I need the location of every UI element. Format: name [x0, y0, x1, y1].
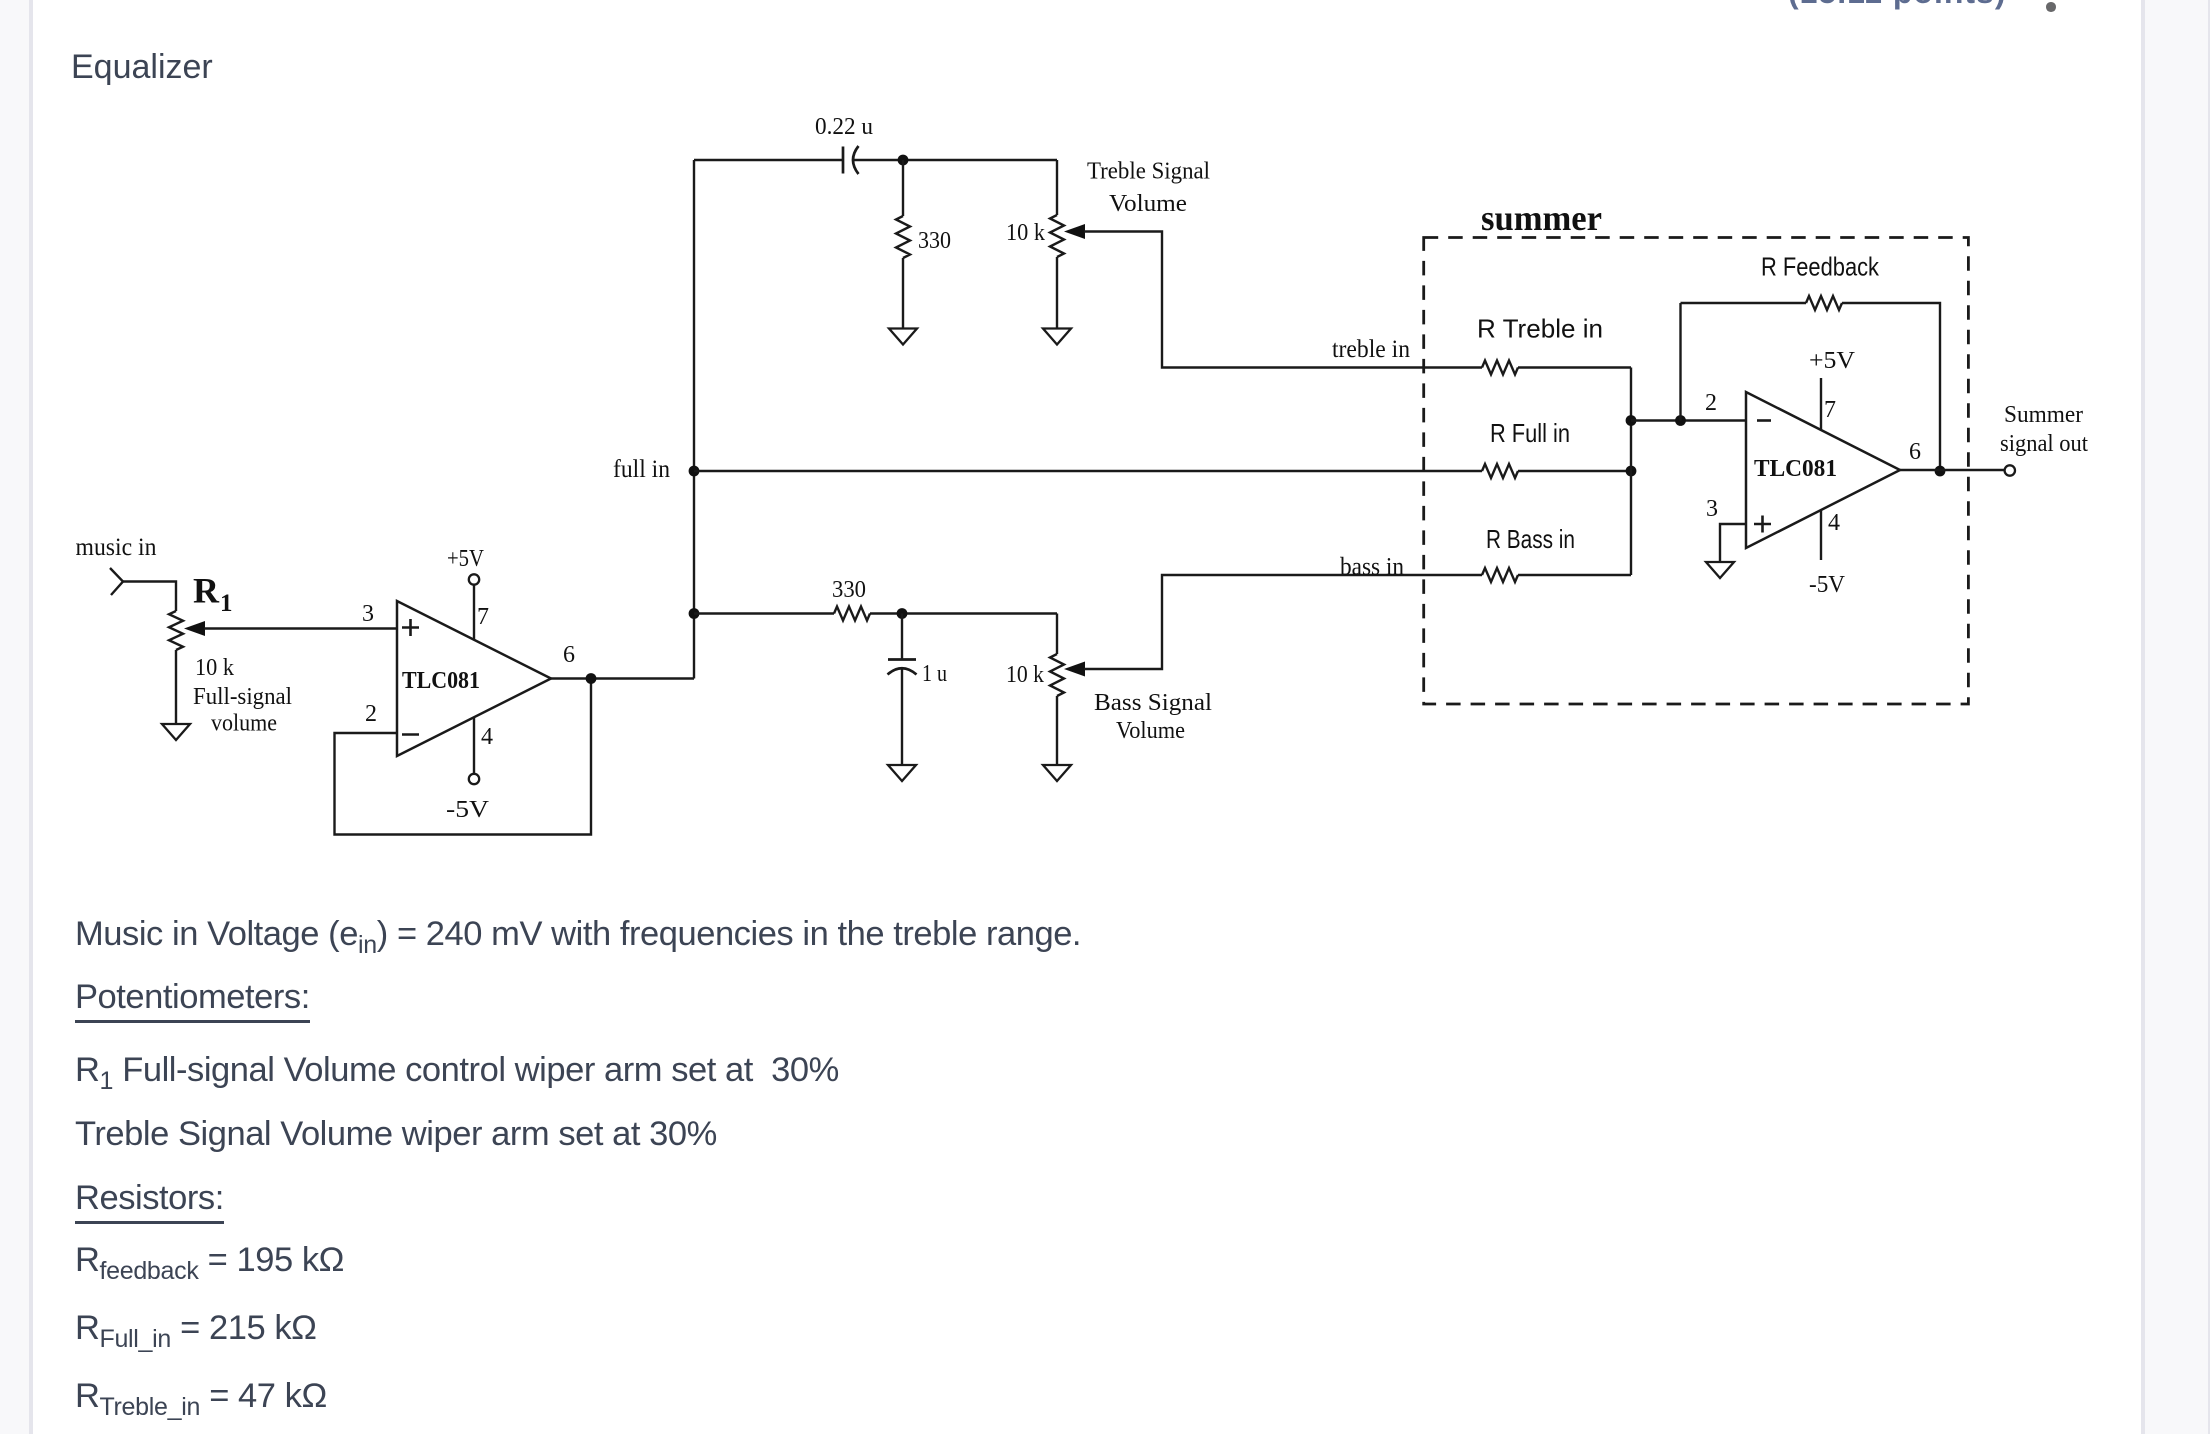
- svg-text:summer: summer: [1481, 198, 1602, 238]
- svg-text:330: 330: [832, 577, 866, 603]
- svg-text:7: 7: [1824, 397, 1836, 423]
- svg-text:bass in: bass in: [1340, 554, 1404, 581]
- svg-text:0.22 u: 0.22 u: [815, 114, 873, 140]
- svg-text:volume: volume: [211, 711, 277, 737]
- svg-text:Full-signal: Full-signal: [193, 684, 292, 710]
- svg-text:10 k: 10 k: [1006, 220, 1045, 246]
- svg-text:6: 6: [563, 642, 575, 668]
- svg-text:Bass Signal: Bass Signal: [1094, 690, 1212, 716]
- svg-text:6: 6: [1909, 439, 1921, 465]
- svg-text:full in: full in: [613, 456, 670, 483]
- svg-text:Volume: Volume: [1109, 191, 1187, 217]
- svg-text:-5V: -5V: [446, 797, 490, 823]
- svg-text:Treble Signal: Treble Signal: [1087, 159, 1210, 185]
- svg-text:signal out: signal out: [2000, 431, 2088, 457]
- svg-text:10 k: 10 k: [195, 655, 234, 681]
- svg-text:+5V: +5V: [1809, 348, 1856, 374]
- svg-text:Volume: Volume: [1116, 718, 1185, 744]
- svg-text:R Full in: R Full in: [1490, 418, 1570, 448]
- svg-text:2: 2: [365, 701, 377, 727]
- svg-text:3: 3: [1706, 496, 1718, 522]
- svg-text:Summer: Summer: [2004, 402, 2083, 428]
- svg-text:music in: music in: [76, 534, 157, 561]
- svg-text:TLC081: TLC081: [402, 668, 480, 694]
- svg-text:4: 4: [1828, 510, 1840, 536]
- svg-text:330: 330: [918, 228, 951, 254]
- svg-text:7: 7: [477, 604, 489, 630]
- svg-text:treble in: treble in: [1332, 336, 1410, 363]
- svg-text:4: 4: [481, 724, 493, 750]
- svg-text:1 u: 1 u: [922, 661, 947, 687]
- svg-text:-5V: -5V: [1809, 572, 1846, 598]
- svg-text:3: 3: [362, 601, 374, 627]
- svg-text:R Feedback: R Feedback: [1761, 252, 1880, 282]
- svg-text:R Treble in: R Treble in: [1477, 314, 1603, 344]
- svg-text:1: 1: [220, 590, 233, 617]
- svg-text:+5V: +5V: [447, 546, 485, 572]
- svg-text:2: 2: [1705, 390, 1717, 416]
- svg-text:TLC081: TLC081: [1754, 456, 1837, 482]
- svg-text:R: R: [193, 571, 220, 611]
- svg-text:R Bass in: R Bass in: [1486, 524, 1575, 554]
- svg-text:10 k: 10 k: [1006, 662, 1044, 688]
